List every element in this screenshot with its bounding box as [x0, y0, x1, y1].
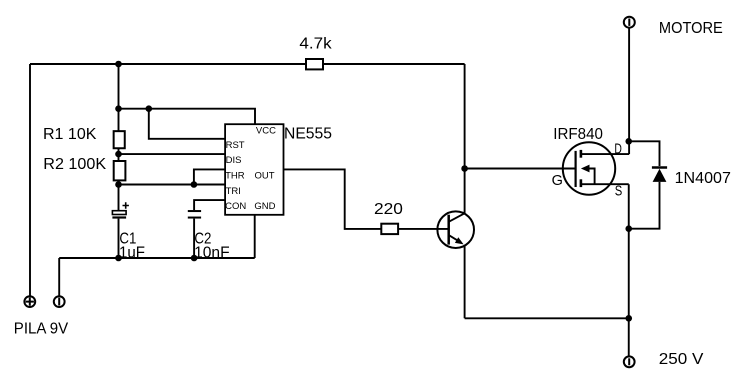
svg-text:R1 10K: R1 10K [43, 126, 97, 143]
svg-text:TRI: TRI [226, 186, 241, 197]
svg-text:CON: CON [225, 201, 246, 212]
svg-text:220: 220 [374, 201, 403, 218]
svg-text:OUT: OUT [255, 171, 275, 182]
svg-text:PILA 9V: PILA 9V [14, 320, 69, 337]
svg-text:RST: RST [226, 140, 245, 151]
svg-text:THR: THR [225, 171, 245, 182]
svg-text:R2 100K: R2 100K [43, 156, 106, 173]
svg-text:G: G [552, 173, 563, 189]
svg-text:250 V: 250 V [659, 351, 704, 368]
svg-text:4.7k: 4.7k [299, 35, 332, 52]
svg-text:IRF840: IRF840 [553, 126, 603, 143]
svg-text:D: D [614, 141, 622, 157]
svg-text:10nF: 10nF [194, 245, 230, 262]
svg-text:VCC: VCC [256, 126, 276, 137]
svg-text:1uF: 1uF [119, 245, 145, 262]
svg-text:S: S [615, 184, 623, 200]
svg-text:1N4007: 1N4007 [675, 170, 731, 187]
svg-text:DIS: DIS [226, 155, 242, 166]
svg-text:MOTORE: MOTORE [659, 20, 723, 37]
svg-text:NE555: NE555 [284, 126, 332, 143]
svg-text:GND: GND [254, 201, 275, 212]
